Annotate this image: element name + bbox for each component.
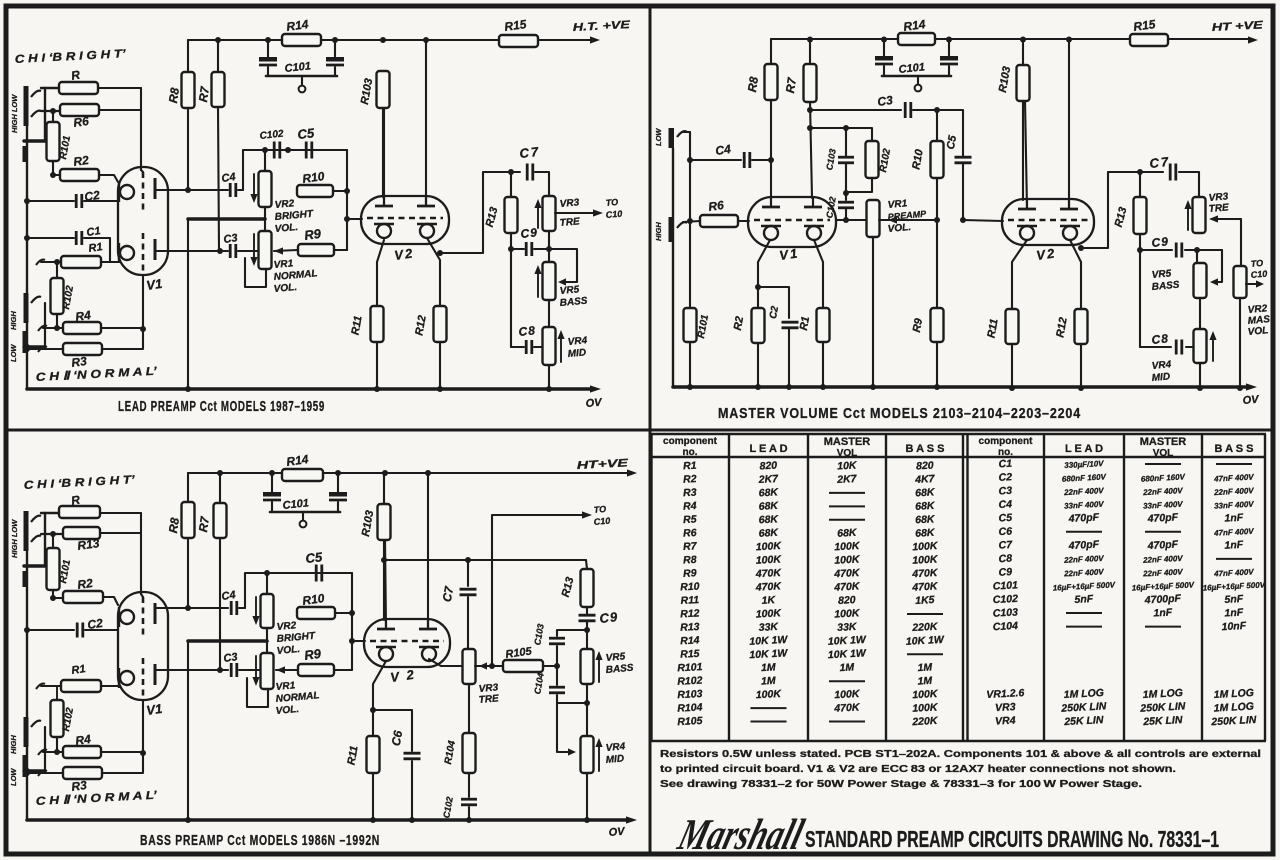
wire V1b anode [155, 669, 228, 671]
svg-text:2K7: 2K7 [757, 473, 779, 486]
svg-text:TO: TO [605, 197, 618, 208]
svg-text:10nF: 10nF [1221, 620, 1247, 633]
wire cathode follower output [437, 250, 443, 256]
wire VR2 to ground line [264, 207, 266, 219]
svg-text:470K: 470K [833, 567, 861, 580]
resistor R6 [683, 221, 700, 222]
capacitor C1 [27, 237, 74, 239]
svg-text:100K: 100K [912, 688, 939, 701]
svg-text:C4: C4 [714, 142, 731, 158]
resistor R7 [809, 39, 811, 64]
resistor R105 [475, 665, 503, 667]
svg-text:R14: R14 [680, 634, 700, 647]
svg-text:R2: R2 [683, 473, 697, 486]
svg-text:R6: R6 [72, 114, 89, 130]
svg-text:C9: C9 [1151, 234, 1170, 250]
svg-text:C10: C10 [605, 209, 622, 220]
svg-text:R15: R15 [680, 648, 700, 661]
potentiometer VR2 bright vol [264, 150, 266, 171]
svg-text:5nF: 5nF [1074, 593, 1094, 606]
wire 0V rail (lead) [27, 387, 592, 391]
svg-text:V1: V1 [778, 245, 800, 263]
tube V2 envelope [1002, 199, 1094, 245]
resistor R7 [219, 473, 221, 503]
svg-text:R1: R1 [71, 663, 87, 677]
resistor R10 [936, 110, 938, 141]
svg-text:R11: R11 [680, 594, 699, 607]
svg-text:R8: R8 [745, 76, 761, 93]
svg-text:470pF: 470pF [1067, 511, 1100, 525]
resistor R11 [373, 661, 386, 736]
svg-text:100K: 100K [834, 553, 861, 566]
svg-text:33K: 33K [758, 621, 779, 634]
capacitor C3 [229, 244, 232, 258]
svg-text:25K LIN: 25K LIN [1142, 714, 1183, 728]
svg-text:LOW: LOW [654, 128, 663, 146]
svg-text:C1: C1 [998, 458, 1012, 471]
wire VR5 wiper loop [549, 249, 577, 282]
svg-text:component: component [663, 436, 718, 447]
svg-text:1nF: 1nF [1224, 607, 1244, 620]
wire V1 grid feeds [141, 170, 143, 172]
capacitor C103 [845, 128, 847, 156]
svg-text:VOL.: VOL. [274, 222, 298, 235]
svg-text:68K: 68K [758, 500, 779, 513]
wire jack ground rail [672, 148, 674, 387]
svg-text:1M LOG: 1M LOG [1063, 687, 1104, 701]
svg-text:470K: 470K [754, 580, 782, 593]
svg-text:C9: C9 [998, 566, 1012, 579]
svg-text:R8: R8 [166, 87, 182, 104]
svg-text:10K 1W: 10K 1W [828, 647, 868, 661]
svg-text:VR4: VR4 [605, 741, 626, 754]
svg-text:R3: R3 [70, 354, 87, 370]
svg-text:1K5: 1K5 [915, 594, 935, 607]
potentiometer VR1 preamp vol [867, 200, 880, 237]
svg-text:L E A D: L E A D [1065, 443, 1103, 455]
capacitor C5 [305, 142, 308, 159]
capacitor C3 [810, 109, 901, 111]
svg-text:470pF: 470pF [1067, 538, 1100, 552]
capacitor C5 [315, 565, 318, 582]
svg-text:C6: C6 [998, 525, 1012, 538]
svg-text:Resistors 0.5W unless stated.: Resistors 0.5W unless stated. PCB ST1–20… [660, 748, 1261, 760]
potentiometer VR5 bass [1196, 250, 1198, 263]
capacitor C4 [690, 159, 741, 161]
svg-text:VR4: VR4 [567, 335, 588, 348]
potentiometer VR2 bright vol [266, 573, 268, 594]
svg-text:R103: R103 [677, 688, 703, 701]
capacitor C2 [27, 629, 74, 631]
svg-text:C4: C4 [221, 589, 237, 603]
wire bright cap bus [243, 150, 347, 190]
svg-text:10K: 10K [837, 459, 858, 472]
tube V1 envelope [118, 592, 168, 700]
resistor R14 [898, 33, 935, 45]
svg-text:R10: R10 [680, 581, 700, 594]
resistor R11 [1012, 240, 1027, 309]
svg-text:10K 1W: 10K 1W [749, 647, 789, 661]
svg-text:C3: C3 [223, 232, 239, 246]
svg-text:VOL: VOL [1153, 448, 1174, 459]
resistor R101 [684, 308, 697, 342]
tube V1 envelope [118, 167, 168, 275]
resistor R3 [38, 347, 47, 352]
svg-text:4K7: 4K7 [914, 473, 936, 486]
svg-text:LOW: LOW [9, 768, 18, 786]
svg-text:C7: C7 [998, 539, 1013, 552]
panel divider vertical [649, 6, 652, 854]
svg-text:R6: R6 [683, 527, 697, 540]
capacitor C3 [230, 663, 233, 677]
wire cathode follower out [1078, 245, 1084, 251]
svg-text:R9: R9 [303, 646, 322, 663]
svg-text:10K 1W: 10K 1W [828, 634, 868, 648]
svg-text:MID: MID [605, 753, 624, 766]
resistor R15 [1130, 34, 1168, 46]
svg-text:100K: 100K [755, 540, 782, 553]
svg-text:VR1: VR1 [273, 258, 294, 271]
potentiometer VR4 mid [1194, 329, 1207, 363]
svg-text:VR1: VR1 [887, 198, 908, 211]
svg-text:68K: 68K [758, 513, 779, 526]
svg-text:10K 1W: 10K 1W [749, 634, 789, 648]
svg-text:4700pF: 4700pF [1143, 593, 1181, 607]
svg-text:C2: C2 [768, 305, 781, 320]
svg-text:100K: 100K [912, 553, 939, 566]
svg-text:R8: R8 [166, 517, 182, 534]
resistor R9 [298, 244, 334, 256]
svg-text:BASS PREAMP Cct MODELS 1: BASS PREAMP Cct MODELS 1986N –1992N [140, 832, 380, 849]
capacitor C102 [461, 798, 477, 801]
resistor R2 [53, 597, 63, 599]
capacitor C102 [273, 142, 276, 159]
capacitor C9 [511, 248, 524, 250]
tube V2 envelope [364, 619, 450, 667]
resistor R15 [499, 35, 538, 47]
wire jack signal / R101 column [689, 132, 691, 308]
capacitor C9 [1140, 249, 1172, 251]
capacitor C8 [511, 346, 524, 348]
svg-text:V1: V1 [145, 276, 163, 293]
svg-text:1M: 1M [761, 661, 776, 674]
svg-text:R3: R3 [70, 778, 87, 794]
svg-text:C1: C1 [86, 225, 102, 239]
svg-text:C7: C7 [1149, 154, 1171, 171]
svg-text:C8: C8 [1151, 331, 1170, 347]
wire grid line [837, 219, 867, 221]
svg-text:C5: C5 [998, 512, 1012, 525]
svg-text:68K: 68K [758, 486, 779, 499]
svg-text:VR2: VR2 [274, 198, 295, 211]
potentiometer VR3 treble [1193, 197, 1206, 233]
tube V1 envelope [748, 197, 836, 247]
resistor R104 [463, 733, 476, 773]
svg-text:250K LIN: 250K LIN [1060, 700, 1107, 714]
capacitor C101 [267, 40, 269, 57]
wire cathode follower out [429, 659, 463, 666]
svg-text:C101: C101 [992, 579, 1018, 592]
svg-text:HIGH LOW: HIGH LOW [10, 519, 19, 558]
svg-text:VR4: VR4 [1151, 359, 1172, 372]
svg-text:470K: 470K [911, 567, 939, 580]
svg-text:68K: 68K [758, 527, 779, 540]
svg-text:to printed circuit board. V1: to printed circuit board. V1 & V2 are EC… [660, 763, 1176, 775]
capacitor C7 [467, 560, 469, 586]
capacitor C102 [838, 201, 854, 204]
svg-text:LOW: LOW [9, 344, 18, 362]
wire V1a anode [155, 607, 228, 609]
wire VR3 wiper to VR2 [1215, 218, 1241, 220]
svg-text:C104: C104 [992, 620, 1018, 633]
wire to C10 [555, 212, 594, 214]
potentiometer VR3 treble [463, 649, 476, 684]
svg-text:R9: R9 [683, 567, 697, 580]
svg-text:C5: C5 [297, 125, 316, 142]
svg-text:820: 820 [759, 460, 777, 473]
resistor R13 [586, 560, 587, 569]
svg-text:R5: R5 [683, 513, 697, 526]
wire 0V rail (bass) [27, 818, 628, 822]
potentiometer VR4 mid [543, 327, 556, 365]
svg-text:VOL.: VOL. [273, 282, 297, 295]
svg-text:HIGH: HIGH [654, 222, 663, 241]
svg-text:5nF: 5nF [1224, 593, 1244, 606]
svg-text:no.: no. [683, 447, 698, 458]
capacitor C2 [27, 200, 74, 202]
svg-text:V1: V1 [145, 701, 163, 718]
resistor R10 [297, 607, 335, 619]
wire stack feed [384, 559, 586, 561]
wire to V2 grid [963, 220, 1003, 221]
svg-text:See drawing 78331–2 for 50W: See drawing 78331–2 for 50W Power Stage … [660, 778, 1142, 790]
svg-text:B A S S: B A S S [1215, 443, 1254, 455]
svg-text:R8: R8 [683, 554, 697, 567]
svg-text:C3: C3 [876, 93, 893, 109]
svg-text:1M LOG: 1M LOG [1213, 701, 1254, 715]
svg-text:470K: 470K [833, 701, 861, 714]
capacitor C5 [937, 110, 963, 156]
svg-text:25K LIN: 25K LIN [1063, 714, 1104, 728]
resistor R10 [297, 185, 333, 197]
svg-text:R13: R13 [680, 621, 700, 634]
svg-text:1M: 1M [839, 661, 854, 674]
svg-text:C6: C6 [389, 729, 406, 747]
svg-text:MASTER: MASTER [1140, 436, 1187, 448]
svg-text:C3: C3 [998, 485, 1012, 498]
svg-text:470pF: 470pF [1146, 538, 1179, 552]
resistor R103 [377, 71, 390, 108]
svg-text:V2: V2 [1035, 245, 1057, 263]
resistor R102 [54, 259, 60, 265]
svg-text:10K 1W: 10K 1W [906, 634, 946, 648]
svg-text:R1: R1 [798, 316, 812, 332]
svg-text:TO: TO [1250, 258, 1263, 269]
svg-text:R6: R6 [707, 198, 724, 214]
svg-text:R4: R4 [74, 308, 91, 324]
svg-text:C10: C10 [1250, 269, 1267, 280]
tube V2 envelope [361, 196, 449, 244]
svg-text:100K: 100K [755, 553, 782, 566]
svg-text:68K: 68K [837, 527, 858, 540]
svg-text:C3: C3 [223, 651, 239, 665]
resistor R102 [51, 700, 64, 737]
resistor R2 [53, 174, 60, 176]
svg-text:C2: C2 [998, 471, 1012, 484]
wire V1b anode [155, 250, 228, 252]
svg-text:820: 820 [838, 594, 856, 607]
svg-text:B A S S: B A S S [906, 443, 945, 455]
resistor R6 [41, 110, 60, 112]
svg-text:R4: R4 [74, 732, 91, 748]
svg-text:100K: 100K [834, 607, 861, 620]
svg-text:MID: MID [567, 347, 586, 360]
svg-text:R2: R2 [72, 153, 89, 169]
svg-text:HIGH: HIGH [9, 735, 18, 754]
svg-text:68K: 68K [915, 527, 936, 540]
svg-text:R12: R12 [680, 607, 700, 620]
resistor R14 [282, 469, 323, 481]
svg-text:R102: R102 [677, 675, 703, 688]
resistor R14 [268, 39, 335, 41]
svg-text:R101: R101 [677, 661, 703, 674]
potentiometer VR4 mid [581, 736, 594, 773]
svg-text:1M: 1M [917, 675, 932, 688]
capacitor C2 [782, 321, 799, 324]
capacitor C4 [229, 183, 232, 197]
svg-text:R2: R2 [76, 576, 93, 592]
svg-text:1nF: 1nF [1224, 512, 1244, 525]
svg-text:R3: R3 [683, 487, 697, 500]
resistor R9 [936, 220, 938, 308]
wire V1a anode [155, 189, 228, 191]
svg-text:100K: 100K [755, 607, 782, 620]
wire ground rail left [26, 126, 28, 389]
svg-text:250K LIN: 250K LIN [1139, 700, 1186, 714]
potentiometer VR3 treble [543, 196, 556, 231]
svg-text:MID: MID [1151, 371, 1170, 384]
resistor R4 [38, 750, 47, 755]
svg-text:100K: 100K [834, 688, 861, 701]
resistor R1 [814, 240, 823, 308]
resistor R13 [1137, 169, 1143, 175]
resistor R102 [866, 141, 879, 178]
svg-text:33K: 33K [837, 621, 858, 634]
component table grid [651, 433, 1266, 436]
node HT junctions [215, 37, 221, 43]
wire V2 anode feeds [383, 108, 385, 206]
wire VR3 bottom to R104 [468, 684, 470, 733]
resistor R12 [1070, 240, 1081, 309]
svg-text:220K: 220K [911, 621, 939, 634]
capacitor C6 [373, 710, 412, 751]
svg-text:C9: C9 [599, 609, 619, 626]
wire anode tap [810, 128, 872, 141]
svg-text:VOL: VOL [837, 448, 858, 459]
svg-text:OV: OV [585, 397, 604, 410]
wire mix node to V2 grid [346, 150, 348, 250]
svg-text:1nF: 1nF [1224, 539, 1244, 552]
svg-text:R2: R2 [732, 316, 746, 332]
resistor R3 [38, 771, 47, 776]
svg-text:820: 820 [916, 460, 934, 473]
svg-text:1M LOG: 1M LOG [1142, 687, 1183, 701]
svg-text:C5: C5 [305, 549, 324, 566]
svg-text:VR4: VR4 [995, 715, 1016, 728]
svg-text:R1: R1 [88, 241, 104, 255]
svg-text:TRE: TRE [478, 693, 499, 706]
resistor R8 [770, 39, 772, 64]
svg-text:TO: TO [593, 504, 606, 515]
svg-text:C8: C8 [998, 553, 1012, 566]
svg-text:HIGH: HIGH [9, 311, 18, 330]
svg-text:VR3: VR3 [995, 701, 1016, 714]
svg-text:R4: R4 [683, 500, 697, 513]
resistor R11 [377, 240, 384, 306]
resistor R8 [187, 473, 189, 502]
resistor R2 [752, 308, 765, 343]
svg-text:1M LOG: 1M LOG [1213, 687, 1254, 701]
svg-text:VOL: VOL [1247, 325, 1268, 338]
svg-text:LEAD PREAMP Cct MODELS 1987–19: LEAD PREAMP Cct MODELS 1987–1959 [118, 398, 325, 415]
svg-text:VR2: VR2 [276, 620, 297, 633]
svg-text:R1: R1 [683, 460, 697, 473]
wire 0V rail (master volume) [675, 385, 1248, 389]
svg-text:TRE: TRE [1208, 202, 1229, 215]
panel divider horizontal [6, 429, 1273, 432]
capacitor C104 [556, 666, 558, 685]
wire cathode R2/C2 [758, 240, 770, 308]
svg-text:VR3: VR3 [559, 197, 580, 210]
capacitor C7 [526, 164, 529, 181]
wire bright cap bus [245, 573, 352, 608]
svg-text:68K: 68K [915, 486, 936, 499]
svg-text:VR5: VR5 [559, 284, 580, 297]
capacitor C101 [883, 39, 885, 57]
svg-text:OV: OV [1242, 394, 1261, 407]
svg-text:1K: 1K [761, 594, 776, 607]
potentiometer VR1 normal vol [266, 641, 268, 653]
svg-text:470K: 470K [754, 567, 782, 580]
svg-text:VOL.: VOL. [887, 222, 911, 235]
svg-text:250K LIN: 250K LIN [1210, 714, 1257, 728]
resistor R103 [383, 473, 385, 504]
resistor R5 [41, 87, 59, 89]
svg-text:C7: C7 [519, 144, 541, 161]
resistor R101 [50, 531, 56, 537]
svg-text:470K: 470K [833, 580, 861, 593]
capacitor C7 [1169, 164, 1172, 181]
wire HT rail (master volume) [771, 38, 1248, 40]
svg-text:100K: 100K [912, 540, 939, 553]
svg-text:68K: 68K [915, 500, 936, 513]
svg-text:VR1.2.6: VR1.2.6 [986, 687, 1025, 701]
resistor R8 [187, 40, 189, 72]
svg-text:MASTER: MASTER [824, 436, 871, 448]
svg-text:C102: C102 [992, 593, 1018, 606]
resistor R101 [50, 108, 56, 114]
svg-text:1M: 1M [917, 661, 932, 674]
svg-text:C9: C9 [520, 225, 539, 241]
svg-text:VOL.: VOL. [275, 704, 299, 717]
svg-text:C10: C10 [593, 516, 610, 527]
svg-text:HIGH LOW: HIGH LOW [10, 94, 19, 133]
svg-text:C4: C4 [221, 171, 237, 185]
svg-text:C8: C8 [518, 323, 537, 339]
svg-text:TRE: TRE [559, 216, 580, 229]
potentiometer VR2 master vol [1234, 266, 1247, 298]
svg-text:Marshall: Marshall [672, 810, 809, 859]
